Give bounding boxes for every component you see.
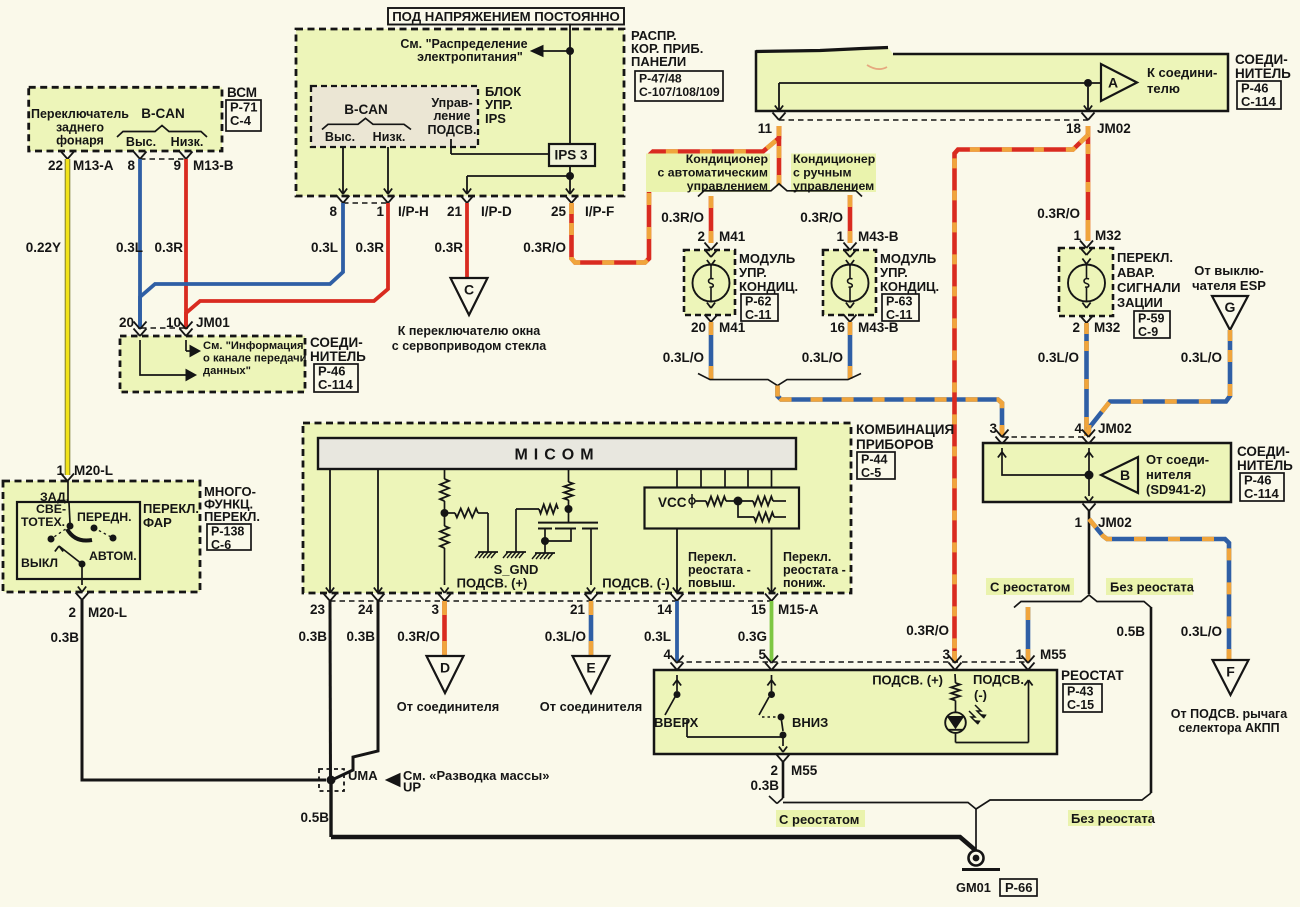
svg-text:селектора АКПП: селектора АКПП xyxy=(1178,721,1279,735)
svg-text:G: G xyxy=(1225,299,1236,315)
svg-text:9: 9 xyxy=(173,158,181,173)
svg-text:ПОДСВ. (+): ПОДСВ. (+) xyxy=(872,673,943,688)
svg-text:C-5: C-5 xyxy=(861,466,881,480)
ground 1 xyxy=(478,512,488,514)
svg-text:С реостатом: С реостатом xyxy=(779,812,859,827)
svg-text:(SD941-2): (SD941-2) xyxy=(1146,482,1206,497)
svg-text:СОЕДИ-: СОЕДИ- xyxy=(1235,52,1288,67)
svg-text:A: A xyxy=(1108,75,1118,91)
inner B-CAN box xyxy=(311,86,478,147)
svg-text:реостата -: реостата - xyxy=(688,563,751,577)
svg-text:8: 8 xyxy=(127,158,135,173)
svg-text:ВСМ: ВСМ xyxy=(227,85,257,100)
svg-text:JM01: JM01 xyxy=(196,315,230,330)
svg-text:о канале передачи: о канале передачи xyxy=(203,353,307,365)
svg-text:ВНИЗ: ВНИЗ xyxy=(792,715,828,730)
svg-text:М43-В: М43-В xyxy=(858,229,899,244)
svg-text:Кондиционер: Кондиционер xyxy=(793,152,875,166)
inner switch box xyxy=(17,502,140,579)
svg-text:М41: М41 xyxy=(719,320,746,335)
svg-text:0.3L: 0.3L xyxy=(311,240,338,255)
svg-text:ФАР: ФАР xyxy=(143,515,172,530)
svg-text:Перекл.: Перекл. xyxy=(783,550,831,564)
svg-text:4: 4 xyxy=(663,647,671,662)
svg-text:С реостатом: С реостатом xyxy=(990,580,1070,595)
svg-text:M13-A: M13-A xyxy=(73,158,114,173)
brace split to two A/C wires xyxy=(698,184,862,197)
JM02 internal line and A connector xyxy=(779,82,1101,84)
svg-text:чателя ESP: чателя ESP xyxy=(1192,278,1266,293)
wire 0.3L pin14 to rheostat pin4 xyxy=(675,601,679,661)
svg-text:20: 20 xyxy=(691,320,706,335)
svg-text:0.3L: 0.3L xyxy=(644,629,671,644)
svg-text:0.3R/O: 0.3R/O xyxy=(906,623,949,638)
svg-text:К соедини-: К соедини- xyxy=(1147,65,1217,80)
svg-text:F: F xyxy=(1226,664,1235,680)
svg-text:21: 21 xyxy=(570,602,586,617)
svg-text:0.3R: 0.3R xyxy=(154,240,183,255)
svg-text:М15-А: М15-А xyxy=(778,602,819,617)
wire 0.3L/O pin21 to E xyxy=(589,601,594,655)
0.5B down from UMA xyxy=(329,780,332,837)
rheostat up/down outputs xyxy=(676,529,678,594)
svg-text:М55: М55 xyxy=(1040,647,1067,662)
wire 0.3L IPS pin8 to JM01 pin20 xyxy=(140,203,343,329)
svg-text:2: 2 xyxy=(697,229,705,244)
СОЕДИНИТЕЛЬ B box xyxy=(983,443,1231,502)
svg-text:0.22Y: 0.22Y xyxy=(26,240,61,255)
svg-text:21: 21 xyxy=(447,204,463,219)
svg-text:B-CAN: B-CAN xyxy=(141,106,185,121)
up switch xyxy=(673,680,677,686)
svg-text:0.3R: 0.3R xyxy=(355,240,384,255)
svg-text:СИГНАЛИ: СИГНАЛИ xyxy=(1117,280,1181,295)
svg-text:1: 1 xyxy=(376,204,384,219)
svg-text:UMA: UMA xyxy=(348,768,378,783)
svg-text:P-62: P-62 xyxy=(745,295,771,309)
svg-text:Выс.: Выс. xyxy=(126,135,156,149)
wire 0.3L/O M43-B pin16 down xyxy=(848,322,853,379)
svg-text:Кондиционер: Кондиционер xyxy=(686,152,768,166)
svg-text:См. "Информация: См. "Информация xyxy=(203,340,303,352)
svg-text:ПЕРЕКЛ.: ПЕРЕКЛ. xyxy=(143,501,199,516)
svg-text:0.3L: 0.3L xyxy=(116,240,143,255)
svg-text:0.3В: 0.3В xyxy=(50,630,79,645)
svg-text:НИТЕЛЬ: НИТЕЛЬ xyxy=(1237,458,1293,473)
svg-text:ПАНЕЛИ: ПАНЕЛИ xyxy=(631,54,686,69)
connector A triangle xyxy=(1101,64,1137,101)
pin23 line xyxy=(329,469,331,593)
svg-text:Низк.: Низк. xyxy=(373,130,406,144)
svg-text:РЕОСТАТ: РЕОСТАТ xyxy=(1061,668,1124,683)
svg-text:МОДУЛЬ: МОДУЛЬ xyxy=(880,251,936,266)
wire 0.5B без реостата branch xyxy=(1150,607,1153,793)
wire 0.3B pin23 to UMA xyxy=(329,601,333,780)
svg-text:M20-L: M20-L xyxy=(88,605,127,620)
svg-text:JM02: JM02 xyxy=(1098,515,1132,530)
svg-text:данных": данных" xyxy=(203,365,251,377)
svg-text:4: 4 xyxy=(1074,421,1082,436)
svg-text:2: 2 xyxy=(770,763,778,778)
svg-text:От соединителя: От соединителя xyxy=(397,699,499,714)
svg-text:0.5В: 0.5В xyxy=(1116,624,1145,639)
wire 0.3R IPS pin1 to JM01 pin10 xyxy=(186,203,388,329)
svg-text:От соединителя: От соединителя xyxy=(540,699,642,714)
transistor pull-up xyxy=(568,469,570,482)
svg-text:К переключателю окна: К переключателю окна xyxy=(398,324,542,338)
blue/orange bus to instrument cluster pin3 xyxy=(778,386,1003,437)
svg-text:КОМБИНАЦИЯ: КОМБИНАЦИЯ xyxy=(856,422,954,437)
svg-text:ПОДСВ. (+): ПОДСВ. (+) xyxy=(457,576,528,591)
svg-text:ВЫКЛ: ВЫКЛ xyxy=(21,556,58,570)
wire 0.3R red BCM pin9 to JM01 pin10 xyxy=(184,159,188,329)
svg-text:КОНДИЦ.: КОНДИЦ. xyxy=(739,279,798,294)
svg-text:M13-B: M13-B xyxy=(193,158,234,173)
BCM block P-71 xyxy=(29,87,222,151)
wire 0.3L/O from G to JM02 pin4 xyxy=(1089,330,1231,436)
module M41 box P-62 xyxy=(684,250,735,315)
connector D triangle xyxy=(427,656,464,693)
drain to pin21 xyxy=(590,529,592,586)
LED arrows xyxy=(969,705,984,724)
svg-text:JM02: JM02 xyxy=(1098,421,1132,436)
branch resistor to ground xyxy=(445,512,456,514)
svg-text:0.3R/O: 0.3R/O xyxy=(397,629,440,644)
svg-text:0.3R/O: 0.3R/O xyxy=(800,210,843,225)
svg-text:C-15: C-15 xyxy=(1067,698,1094,712)
svg-text:М32: М32 xyxy=(1094,320,1120,335)
svg-text:C-9: C-9 xyxy=(1138,325,1158,339)
hazard switch module M32 box P-59 xyxy=(1059,248,1113,316)
svg-text:МОДУЛЬ: МОДУЛЬ xyxy=(739,251,795,266)
wire 0.3L blue BCM pin8 to JM01 pin20 xyxy=(138,159,142,329)
long wire 0.3R/O JM02 pin18 to rheostat pin3 xyxy=(955,135,1089,662)
svg-text:0.3L/O: 0.3L/O xyxy=(1181,350,1222,365)
switch contacts xyxy=(67,481,69,503)
svg-text:C-11: C-11 xyxy=(745,308,771,322)
multifunction switch wire 0.3B down and across xyxy=(82,600,326,780)
svg-text:АВАР.: АВАР. xyxy=(1117,265,1155,280)
thin run from rheostat pin2 to ground xyxy=(783,803,976,810)
scan smudge xyxy=(867,65,887,69)
svg-text:8: 8 xyxy=(329,204,337,219)
wire 0.3R/O pin3 to D xyxy=(442,601,447,655)
svg-text:0.3R/O: 0.3R/O xyxy=(523,240,566,255)
svg-text:М32: М32 xyxy=(1095,228,1121,243)
svg-text:B-CAN: B-CAN xyxy=(344,102,388,117)
title box ПОД НАПРЯЖЕНИЕМ ПОСТОЯННО xyxy=(388,8,624,25)
svg-text:24: 24 xyxy=(358,602,374,617)
wire 0.3R/O to M43-B pin1 xyxy=(848,195,853,243)
svg-text:СОЕДИ-: СОЕДИ- xyxy=(1237,444,1290,459)
svg-text:3: 3 xyxy=(431,602,439,617)
svg-text:Низк.: Низк. xyxy=(171,135,204,149)
svg-text:M20-L: M20-L xyxy=(74,463,113,478)
svg-text:P-63: P-63 xyxy=(886,295,912,309)
svg-text:C-114: C-114 xyxy=(1244,486,1279,501)
IPS 3 box xyxy=(450,139,452,154)
svg-text:0.3G: 0.3G xyxy=(738,629,767,644)
svg-text:MICOM: MICOM xyxy=(514,447,599,464)
svg-text:ПОД НАПРЯЖЕНИЕМ ПОСТОЯННО: ПОД НАПРЯЖЕНИЕМ ПОСТОЯННО xyxy=(392,9,620,24)
gate resistor xyxy=(539,505,558,514)
svg-text:электропитания": электропитания" xyxy=(417,50,523,64)
svg-text:I/P-H: I/P-H xyxy=(398,204,429,219)
wire 0.3L/O M41 pin20 down xyxy=(709,322,714,379)
svg-text:C: C xyxy=(464,282,474,298)
svg-text:заднего: заднего xyxy=(56,121,104,135)
svg-text:ПЕРЕКЛ.: ПЕРЕКЛ. xyxy=(1117,250,1173,265)
ground S_GND xyxy=(506,551,526,553)
svg-text:3: 3 xyxy=(989,421,997,436)
svg-text:ПОДСВ.: ПОДСВ. xyxy=(973,672,1024,687)
svg-text:C-6: C-6 xyxy=(211,538,231,552)
svg-text:25: 25 xyxy=(551,204,567,219)
svg-text:0.3L/O: 0.3L/O xyxy=(545,629,586,644)
collector brace under modules xyxy=(698,374,861,386)
svg-text:Перекл.: Перекл. xyxy=(688,550,736,564)
switch arrow xyxy=(59,546,82,564)
svg-text:IPS 3: IPS 3 xyxy=(554,148,588,163)
svg-text:P-138: P-138 xyxy=(211,525,244,539)
svg-text:D: D xyxy=(440,660,450,676)
wire 0.3L/O M32 pin2 down to JM02 pin4 xyxy=(1084,323,1089,436)
arrow to power distribution xyxy=(531,46,543,57)
svg-text:16: 16 xyxy=(830,320,846,335)
connector C triangle xyxy=(451,278,488,315)
svg-text:СВЕ-: СВЕ- xyxy=(36,502,66,516)
svg-text:М55: М55 xyxy=(791,763,818,778)
svg-text:телю: телю xyxy=(1147,81,1180,96)
svg-text:0.3В: 0.3В xyxy=(750,778,779,793)
label Кондиционер с автоматическим управлением xyxy=(646,154,770,193)
svg-text:C-4: C-4 xyxy=(230,113,252,128)
UMA junction xyxy=(327,776,336,785)
svg-text:1: 1 xyxy=(836,229,844,244)
svg-text:11: 11 xyxy=(758,121,773,136)
resistor divider on ПОДСВ.(+) xyxy=(444,469,446,479)
ground 3 xyxy=(535,552,555,554)
svg-text:ПЕРЕДН.: ПЕРЕДН. xyxy=(77,510,132,524)
connector B triangle xyxy=(1101,457,1138,493)
svg-text:УПР.: УПР. xyxy=(739,265,767,280)
wire 0.3R/O JM02 pin11 down to brace xyxy=(777,126,782,185)
svg-text:P-59: P-59 xyxy=(1138,312,1164,326)
svg-text:0.3R: 0.3R xyxy=(434,240,463,255)
BCM pin chevrons xyxy=(61,152,68,160)
svg-text:пониж.: пониж. xyxy=(783,576,826,590)
svg-text:ПЕРЕКЛ.: ПЕРЕКЛ. xyxy=(204,509,260,524)
svg-text:UP: UP xyxy=(403,780,421,795)
thick ground run xyxy=(331,837,976,852)
svg-text:0.3В: 0.3В xyxy=(346,629,375,644)
svg-text:3: 3 xyxy=(942,647,950,662)
lamp resistor xyxy=(954,674,957,683)
svg-text:18: 18 xyxy=(1066,121,1082,136)
svg-text:P-47/48: P-47/48 xyxy=(639,72,682,86)
svg-text:C-114: C-114 xyxy=(1241,94,1276,109)
svg-text:См. "Распределение: См. "Распределение xyxy=(400,37,527,51)
wire 0.3R/O IPS pin25 to JM02 pin11 xyxy=(572,126,780,263)
КОМБИНАЦИЯ ПРИБОРОВ dashed box xyxy=(303,423,851,593)
wire 0.3L/O branch to F xyxy=(1089,519,1229,660)
svg-text:От соеди-: От соеди- xyxy=(1146,452,1209,467)
IPS internal pin arrows xyxy=(342,147,344,194)
svg-text:2: 2 xyxy=(1072,320,1080,335)
svg-text:VCC: VCC xyxy=(658,495,687,510)
svg-text:0.3R/O: 0.3R/O xyxy=(1037,206,1080,221)
svg-text:P-43: P-43 xyxy=(1067,685,1093,699)
svg-text:Переключатель: Переключатель xyxy=(31,107,129,121)
svg-text:повыш.: повыш. xyxy=(688,576,735,590)
wire 0.3B pin24 to UMA xyxy=(334,601,378,779)
svg-text:C-114: C-114 xyxy=(318,377,353,392)
wire 0.3R IPS pin21 to C xyxy=(465,203,469,278)
svg-text:0.3L/O: 0.3L/O xyxy=(1038,350,1079,365)
svg-text:0.3R/O: 0.3R/O xyxy=(661,210,704,225)
svg-text:0.3L/O: 0.3L/O xyxy=(802,350,843,365)
svg-text:ПОДСВ.: ПОДСВ. xyxy=(428,123,477,137)
svg-text:с сервоприводом стекла: с сервоприводом стекла xyxy=(392,339,547,353)
svg-text:с ручным: с ручным xyxy=(793,166,852,180)
svg-text:Выс.: Выс. xyxy=(325,130,355,144)
svg-text:Без реостата: Без реостата xyxy=(1110,580,1195,595)
svg-text:От ПОДСВ. рычага: От ПОДСВ. рычага xyxy=(1171,707,1288,721)
МНОГОФУНКЦ. ПЕРЕКЛ. dashed box xyxy=(3,481,200,592)
down switch xyxy=(767,680,771,686)
svg-text:УПР.: УПР. xyxy=(880,265,908,280)
svg-text:М43-В: М43-В xyxy=(858,320,899,335)
svg-text:ление: ление xyxy=(434,109,471,123)
VCC box xyxy=(676,469,678,488)
label Кондиционер с ручным управлением xyxy=(791,154,876,193)
module M43-B box P-63 xyxy=(823,250,876,315)
svg-text:P-44: P-44 xyxy=(861,453,887,467)
svg-text:GM01: GM01 xyxy=(956,880,991,895)
svg-text:От выклю-: От выклю- xyxy=(1194,263,1264,278)
svg-text:I/P-F: I/P-F xyxy=(585,204,614,219)
svg-text:АВТОМ.: АВТОМ. xyxy=(89,549,137,563)
svg-text:JM02: JM02 xyxy=(1097,121,1131,136)
svg-text:0.3L/O: 0.3L/O xyxy=(1181,624,1222,639)
svg-text:ВВЕРХ: ВВЕРХ xyxy=(654,715,699,730)
wire 0.3R/O to M41 pin2 xyxy=(709,196,714,243)
svg-text:C-107/108/109: C-107/108/109 xyxy=(639,85,720,99)
svg-text:ПРИБОРОВ: ПРИБОРОВ xyxy=(856,437,934,452)
svg-text:B: B xyxy=(1120,467,1130,483)
svg-text:СОЕДИ-: СОЕДИ- xyxy=(310,335,363,350)
svg-text:I/P-D: I/P-D xyxy=(481,204,512,219)
svg-text:НИТЕЛЬ: НИТЕЛЬ xyxy=(310,349,366,364)
ground GM01 xyxy=(969,851,984,866)
svg-text:1: 1 xyxy=(1074,515,1082,530)
svg-text:фонаря: фонаря xyxy=(56,134,104,148)
svg-text:0.3L/O: 0.3L/O xyxy=(663,350,704,365)
svg-text:14: 14 xyxy=(657,602,673,617)
svg-text:с автоматическим: с автоматическим xyxy=(657,166,768,180)
IPS control block box xyxy=(296,29,624,196)
wire 0.3G pin15 to rheostat pin5 xyxy=(770,601,774,661)
black wire from JM02 pin1 xyxy=(1088,511,1091,594)
svg-text:P-66: P-66 xyxy=(1005,880,1032,895)
svg-text:E: E xyxy=(586,660,595,676)
svg-text:(-): (-) xyxy=(974,688,987,703)
MOSFET xyxy=(538,522,598,524)
wire 0.3R/O JM02 pin18 to M32 pin1 xyxy=(1086,126,1091,241)
svg-text:1: 1 xyxy=(1015,647,1023,662)
brace С реостатом / Без реостата xyxy=(1014,595,1151,608)
svg-text:ПОДСВ. (-): ПОДСВ. (-) xyxy=(602,576,670,591)
MICOM box xyxy=(318,438,796,469)
svg-text:15: 15 xyxy=(751,602,767,617)
РЕОСТАТ box P-43 xyxy=(677,661,1028,663)
svg-text:0.5В: 0.5В xyxy=(300,810,329,825)
svg-text:См. «Разводка массы»: См. «Разводка массы» xyxy=(403,768,549,783)
svg-text:ЗАЦИИ: ЗАЦИИ xyxy=(1117,295,1163,310)
svg-text:22: 22 xyxy=(48,158,63,173)
svg-text:Управ-: Управ- xyxy=(431,96,472,110)
svg-text:ТОТЕХ.: ТОТЕХ. xyxy=(21,515,65,529)
wire 0.22Y yellow xyxy=(65,159,71,475)
cluster pin chevrons xyxy=(324,594,331,602)
svg-text:НИТЕЛЬ: НИТЕЛЬ xyxy=(1235,66,1291,81)
LED xyxy=(945,712,966,733)
svg-text:нителя: нителя xyxy=(1146,467,1191,482)
wire 0.3L/O to rheostat pin1 xyxy=(1026,607,1031,662)
svg-text:КОНДИЦ.: КОНДИЦ. xyxy=(880,279,939,294)
connector F triangle xyxy=(1213,660,1249,695)
svg-text:М41: М41 xyxy=(719,229,746,244)
svg-text:23: 23 xyxy=(310,602,326,617)
svg-text:5: 5 xyxy=(758,647,766,662)
svg-text:реостата -: реостата - xyxy=(783,563,846,577)
svg-text:2: 2 xyxy=(68,605,76,620)
thin run from 0.5B branch to ground xyxy=(976,793,1151,809)
connector E triangle xyxy=(573,656,610,693)
svg-text:0.3В: 0.3В xyxy=(298,629,327,644)
svg-text:УПР.: УПР. xyxy=(485,97,513,112)
svg-text:Без реостата: Без реостата xyxy=(1071,811,1156,826)
pin24 line xyxy=(377,469,379,593)
JM02 junction green box xyxy=(756,48,1228,112)
svg-text:20: 20 xyxy=(119,315,134,330)
svg-text:IPS: IPS xyxy=(485,111,506,126)
